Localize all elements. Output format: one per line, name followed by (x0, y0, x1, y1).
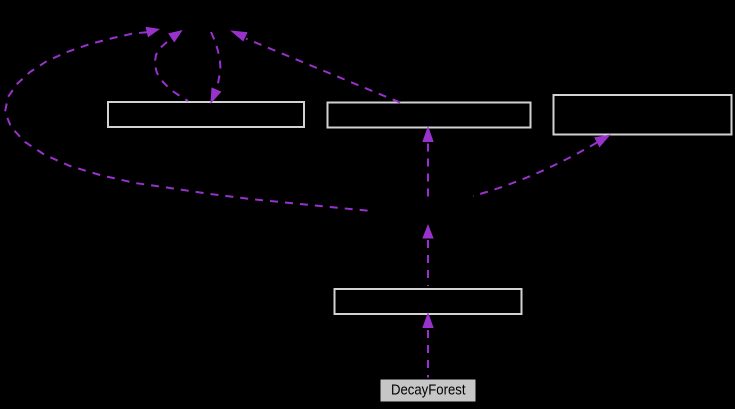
node DecayForest (filled main node) (381, 380, 476, 402)
edge E1: DecayForest to B4 (dashed arrow up) (422, 312, 433, 378)
edge E3: hidden mid node to B2 (dashed arrow up) (422, 126, 433, 199)
edge E2: B4 to hidden mid node (dashed arrow up) (422, 224, 433, 286)
edge E8: from B2 top up-left to hidden top node (230, 30, 400, 102)
node box B4 (middle class box) (335, 289, 522, 314)
edge E7: from hidden top node down to B1 (bulges right, arrow down) (210, 32, 221, 104)
node box B1 (top-left class box) (108, 102, 304, 127)
edge E4: hidden mid node to B3 (dashed diagonal arrow up-right) (473, 135, 611, 197)
edge E6: loop from B1 up to hidden top node (bulges left, arrow up-right) (155, 30, 189, 101)
edge E5: long swooping curve from hidden mid node around the left up to hidden top node (5, 27, 371, 211)
node box B3 (top-right class box) (554, 95, 732, 135)
node box B2 (top-middle class box) (328, 103, 531, 128)
svg-text:DecayForest: DecayForest (391, 382, 466, 398)
